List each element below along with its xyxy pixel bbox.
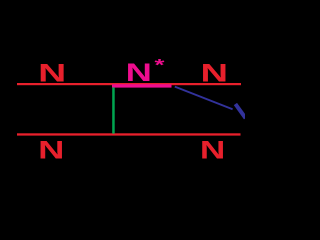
wire: N* level segment (magenta overlay) (112, 84, 172, 87)
svg-text:N: N (126, 58, 152, 86)
node N* asterisk (155, 55, 166, 75)
svg-text:N: N (200, 135, 225, 164)
svg-text:N: N (201, 59, 229, 87)
node N* (magenta label) (126, 58, 152, 86)
node N (top-right label) (201, 59, 229, 87)
svg-text:*: * (155, 55, 166, 75)
wire: green vertical transition (112, 87, 115, 133)
node N (bottom-right label) (200, 135, 225, 164)
svg-text:N: N (38, 136, 64, 164)
wire: ground-state level line (red, bottom) (17, 133, 241, 135)
svg-text:N: N (38, 58, 66, 87)
wire: blue arrowhead stroke (235, 104, 245, 118)
node N (bottom-left label) (38, 136, 64, 164)
wire: blue diagonal transition (175, 87, 233, 110)
wire: excited-state level line (red, top) (17, 83, 241, 85)
node N (top-left label) (38, 58, 66, 87)
